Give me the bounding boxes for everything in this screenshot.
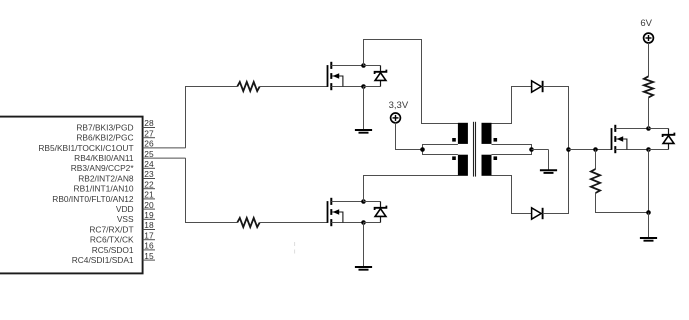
svg-text:6V: 6V (640, 18, 652, 29)
wire R2 to Q2 gate (260, 222, 328, 224)
node Q2 drain junction (361, 199, 366, 204)
svg-text:RB3/AN9/CCP2*: RB3/AN9/CCP2* (71, 163, 135, 173)
node Q1 source junction (361, 84, 366, 89)
svg-text:RB1/INT1/AN10: RB1/INT1/AN10 (74, 184, 134, 194)
microcontroller U1 (PIC18F2x) body (0, 117, 143, 274)
transistor Q3 (output N-MOSFET) (612, 125, 648, 153)
wire secondary top to D3 (492, 87, 532, 124)
wire secondary centre-tap stub (492, 145, 532, 155)
node primary centre tap (420, 147, 425, 152)
svg-text:RB5/KBI1/TOCKI/C1OUT: RB5/KBI1/TOCKI/C1OUT (38, 143, 133, 153)
wire R1 to Q1 gate (260, 86, 328, 88)
node Q2 source junction (361, 220, 366, 225)
node rectified gate rail (566, 147, 571, 152)
node Q3 source junction (646, 147, 651, 152)
ground (Q1 source) (355, 87, 372, 133)
svg-text:VDD: VDD (116, 204, 134, 214)
wire Q3 drain to body diode (649, 128, 669, 130)
wire Q2 drain to body diode (364, 201, 381, 203)
wire Q2 drain to TR1 primary bottom (364, 176, 459, 202)
wire Q3 source to body diode (649, 149, 669, 151)
svg-text:25: 25 (144, 149, 154, 159)
node secondary centre tap (529, 147, 534, 152)
zener D2 (Q2 body diode) (375, 202, 387, 223)
resistor R4 (gate pulldown) (591, 169, 600, 193)
wire gate rail to Q3 gate (569, 149, 612, 151)
svg-text:20: 20 (144, 200, 154, 210)
diode D4 (bottom rectifier) (532, 208, 543, 219)
svg-text:28: 28 (144, 118, 154, 128)
node output ground junction (646, 210, 651, 215)
resistor R1 (top gate series) (237, 82, 259, 91)
svg-text:RB6/KBI2/PGC: RB6/KBI2/PGC (76, 133, 133, 143)
wire pin25 drop to bottom gate net (186, 158, 238, 222)
U1 pin 15 (RC4/SDI1/SDA1) stub and labels (72, 251, 155, 265)
U1 pin 27 (RB6/KBI2/PGC) stub and labels (76, 128, 155, 142)
resistor R2 (bottom gate series) (237, 218, 259, 227)
svg-text:27: 27 (144, 128, 154, 138)
U1 pin 17 (RC6/TX/CK) stub and labels (90, 230, 155, 244)
U1 pin 21 (RB0/INT0/FLT0/AN12) stub and labels (52, 190, 155, 204)
transformer TR1 primary windings (left) (458, 123, 468, 176)
svg-text:RB7/BKI3/PGD: RB7/BKI3/PGD (76, 122, 133, 132)
wire R3 to Q3 drain (648, 98, 650, 129)
TR1 polarity dot secondary top (494, 138, 498, 142)
wire 6V to R3 (648, 43, 650, 77)
resistor R3 (6V drain resistor) (644, 76, 653, 97)
node gate / R4 junction (593, 147, 598, 152)
U1 pin 16 (RC5/SDO1) stub and labels (92, 241, 155, 255)
svg-text:RC4/SDI1/SDA1: RC4/SDI1/SDA1 (72, 255, 134, 265)
transformer TR1 secondary windings (right) (482, 123, 492, 176)
svg-text:26: 26 (144, 139, 154, 149)
svg-text:22: 22 (144, 179, 154, 189)
svg-text:RC7/RX/DT: RC7/RX/DT (89, 224, 133, 234)
wire Q2 source to body diode (364, 222, 381, 224)
svg-text:23: 23 (144, 169, 154, 179)
svg-text:RB4/KBI0/AN11: RB4/KBI0/AN11 (74, 153, 134, 163)
ground (secondary centre tap) (540, 150, 557, 173)
wire gate node to R4 (595, 150, 597, 170)
svg-text:18: 18 (144, 220, 154, 230)
svg-text:RB0/INT0/FLT0/AN12: RB0/INT0/FLT0/AN12 (52, 194, 134, 204)
zener D5 (Q3 body diode) (663, 129, 675, 150)
wire D3 cathode to right rail (543, 87, 569, 150)
ground (Q2 source) (355, 223, 372, 270)
wire Q1 drain to body diode (364, 65, 381, 67)
U1 pin 19 (VSS) stub and labels (117, 210, 155, 224)
svg-text:24: 24 (144, 159, 154, 169)
svg-text:RC6/TX/CK: RC6/TX/CK (90, 235, 134, 245)
node Q3 drain junction (646, 126, 651, 131)
page boundary dash (decor) (294, 242, 296, 257)
U1 pin 22 (RB1/INT1/AN10) stub and labels (74, 179, 155, 193)
U1 pin 26 (RB5/KBI1/TOCKI/C1OUT) stub and labels (38, 139, 185, 153)
ground (output stage) (640, 213, 657, 241)
zener D1 (Q1 body diode) (375, 66, 387, 87)
power +6V flag (640, 18, 653, 43)
TR1 polarity dot secondary bottom (494, 156, 498, 160)
svg-text:15: 15 (144, 251, 154, 261)
U1 pin 18 (RC7/RX/DT) stub and labels (89, 220, 155, 234)
power +3.3V flag (389, 100, 409, 123)
svg-text:19: 19 (144, 210, 154, 220)
svg-text:16: 16 (144, 241, 154, 251)
wire pin26 riser to top gate net (186, 87, 238, 148)
svg-text:VSS: VSS (117, 214, 134, 224)
TR1 polarity dot primary top (452, 138, 456, 142)
wire 3.3V to primary centre tap (396, 123, 423, 150)
U1 pin 20 (VDD) stub and labels (116, 200, 155, 214)
transistor Q2 (bottom N-MOSFET) (328, 198, 364, 226)
wire Q3 source to ground node (648, 150, 650, 213)
TR1 polarity dot primary bottom (452, 156, 456, 160)
svg-text:17: 17 (144, 230, 154, 240)
diode D3 (top rectifier) (532, 81, 543, 92)
wire R4 to source node (596, 193, 649, 213)
U1 pin 24 (RB3/AN9/CCP2*) stub and labels (71, 159, 155, 173)
wire secondary bottom to D4 (492, 176, 532, 214)
svg-text:RC5/SDO1: RC5/SDO1 (92, 245, 134, 255)
wire secondary centre tap to ground (532, 149, 549, 151)
U1 pin 23 (RB2/INT2/AN8) stub and labels (78, 169, 155, 183)
wire Q1 source to body diode (364, 86, 381, 88)
U1 pin 25 (RB4/KBI0/AN11) stub and labels (74, 149, 185, 163)
svg-text:21: 21 (144, 190, 154, 200)
svg-text:RB2/INT2/AN8: RB2/INT2/AN8 (78, 173, 134, 183)
U1 pin 28 (RB7/BKI3/PGD) stub and labels (76, 118, 155, 132)
wire top rail Q1 drain to TR1 primary top (364, 40, 459, 124)
wire D4 cathode to right rail (543, 150, 569, 214)
transformer TR1 core (474, 122, 476, 177)
svg-text:3,3V: 3,3V (389, 100, 409, 111)
transistor Q1 (top N-MOSFET) (328, 62, 364, 90)
wire primary centre-tap stub (423, 145, 458, 155)
node Q1 drain junction (361, 63, 366, 68)
